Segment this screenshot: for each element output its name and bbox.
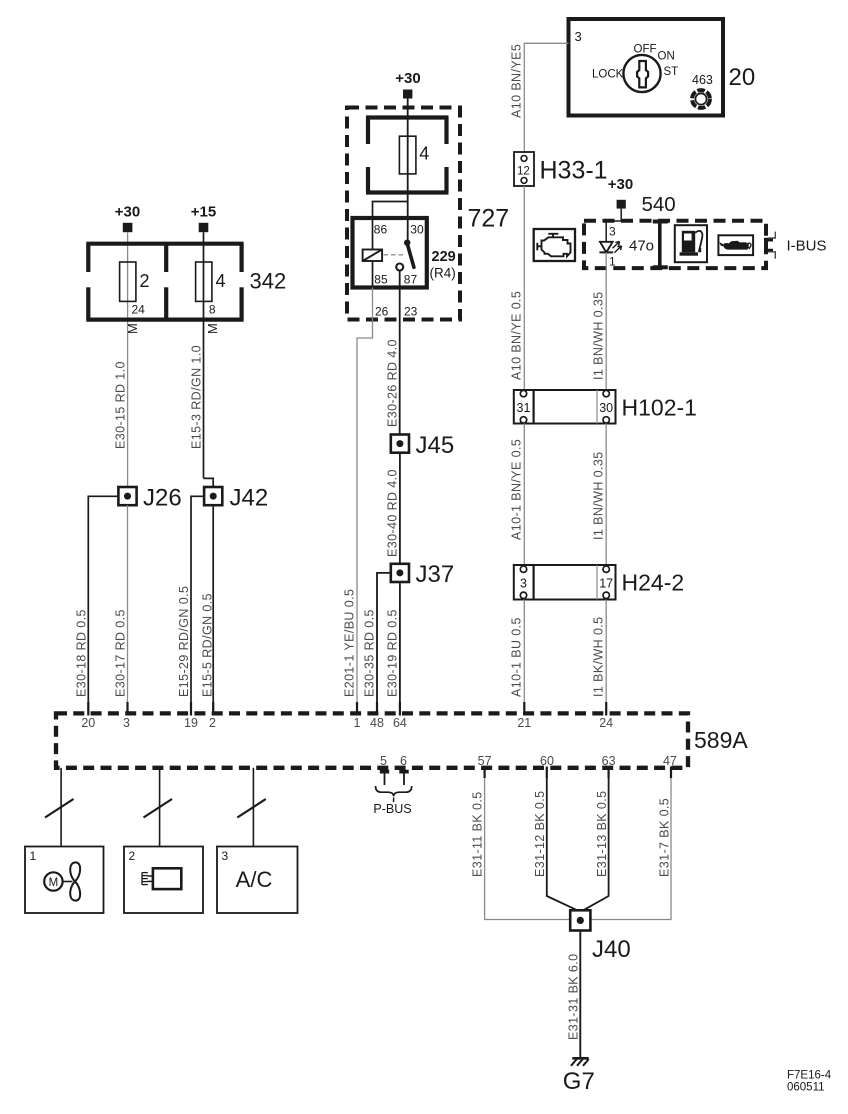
svg-text:H24-2: H24-2 (622, 570, 685, 596)
svg-text:47: 47 (663, 754, 677, 768)
wire to component 3 (252, 768, 254, 847)
svg-text:6: 6 (400, 754, 407, 768)
+30 terminal square (617, 200, 626, 209)
key switch positions labels (592, 44, 678, 81)
svg-text:30: 30 (599, 401, 613, 415)
svg-text:64: 64 (393, 716, 407, 730)
svg-text:86: 86 (374, 223, 388, 237)
svg-text:+30: +30 (115, 204, 140, 221)
branch wire to relay pin 86 (373, 202, 408, 221)
fuse box 342 (86, 244, 243, 320)
svg-text:H33-1: H33-1 (540, 157, 608, 185)
relay contact 30 dot (404, 240, 410, 246)
svg-text:727: 727 (468, 205, 510, 233)
svg-text:E201-1 YE/BU 0.5: E201-1 YE/BU 0.5 (343, 589, 357, 697)
svg-text:2: 2 (140, 271, 150, 291)
svg-text:4: 4 (216, 271, 226, 291)
svg-text:J45: J45 (416, 432, 455, 459)
relay contact 87 circle (396, 264, 403, 271)
svg-text:G7: G7 (563, 1068, 595, 1095)
wire J40 to ground (579, 931, 581, 1059)
svg-text:+15: +15 (191, 204, 216, 221)
svg-text:I1 BN/WH 0.35: I1 BN/WH 0.35 (592, 291, 606, 380)
wire jog into J42 (204, 478, 214, 487)
svg-text:E15-29 RD/GN 0.5: E15-29 RD/GN 0.5 (177, 586, 191, 697)
relay switch blade (407, 244, 414, 268)
wire H33-1 to H102-1 (523, 186, 525, 390)
svg-text:H102-1: H102-1 (622, 395, 697, 421)
svg-text:24: 24 (131, 303, 145, 317)
svg-text:M: M (125, 323, 140, 334)
svg-text:(R4): (R4) (430, 266, 456, 281)
svg-text:E31-31 BK 6.0: E31-31 BK 6.0 (566, 953, 580, 1040)
svg-text:+30: +30 (395, 70, 420, 87)
I-BUS connector notch (766, 238, 773, 253)
wire pin 47 to J40 (590, 778, 671, 920)
svg-text:LOCK: LOCK (592, 69, 624, 81)
svg-text:A10 BN/YE 0.5: A10 BN/YE 0.5 (510, 291, 524, 380)
wire pin 57 to J40 (485, 778, 571, 920)
svg-text:20: 20 (729, 64, 756, 91)
wires H102-1 to H24-2 (523, 424, 525, 566)
svg-text:E31-12 BK 0.5: E31-12 BK 0.5 (533, 790, 547, 877)
svg-text:47o: 47o (629, 238, 654, 255)
svg-text:OFF: OFF (634, 44, 657, 56)
dashed box 540 (584, 221, 766, 268)
wire from ignition pin 3 to H33-1 (524, 43, 568, 152)
svg-text:I1 BK/WH 0.5: I1 BK/WH 0.5 (592, 616, 606, 697)
relay 229 box (353, 218, 427, 288)
svg-text:2: 2 (129, 849, 136, 863)
wire J26 branch to pin 20 (88, 496, 118, 713)
svg-text:A10-1 BU 0.5: A10-1 BU 0.5 (510, 617, 524, 697)
svg-text:ON: ON (658, 51, 675, 63)
engine icon (537, 234, 570, 256)
key cylinder circle (623, 55, 660, 92)
svg-text:E15-5 RD/GN 0.5: E15-5 RD/GN 0.5 (200, 593, 214, 697)
wire pin 60 to J40 (547, 778, 578, 910)
svg-text:M: M (205, 323, 220, 334)
junction J37 (391, 564, 409, 582)
svg-text:87: 87 (404, 273, 418, 287)
component box 2 (solenoid) (124, 847, 203, 914)
relay coil wire 86-85 (372, 218, 374, 288)
svg-text:463: 463 (692, 73, 713, 87)
ground G7 (571, 1058, 589, 1066)
svg-text:E31-13 BK 0.5: E31-13 BK 0.5 (595, 790, 609, 877)
svg-text:589A: 589A (694, 727, 748, 753)
wire +30 through fuse to relay pin 30 (407, 99, 409, 243)
svg-text:17: 17 (599, 577, 613, 591)
junction J40 (570, 910, 590, 930)
svg-text:26: 26 (375, 305, 389, 319)
fuse 4 symbol (196, 262, 212, 301)
svg-text:F7E16-4: F7E16-4 (787, 1070, 832, 1082)
svg-text:5: 5 (380, 754, 387, 768)
fuel pump icon (680, 231, 703, 256)
I-BUS plug symbol (768, 232, 775, 259)
connector leads (148, 875, 153, 877)
svg-text:J40: J40 (592, 936, 631, 963)
svg-text:J37: J37 (416, 561, 455, 588)
svg-text:M: M (49, 877, 59, 889)
wire J26 to pin 3 (127, 505, 129, 713)
wire +30 to fuse 2 (127, 232, 129, 487)
fuse 4 symbol (727) (399, 136, 416, 174)
wire LED down to H102-1 pin 30 (605, 252, 607, 390)
svg-text:30: 30 (410, 223, 424, 237)
wire to component 2 (159, 768, 161, 847)
lock cylinder 463 symbol (695, 93, 706, 104)
continuation slash (144, 799, 173, 818)
relay actuation dashed link (384, 254, 405, 256)
svg-text:A10 BN/YE5: A10 BN/YE5 (510, 44, 524, 118)
svg-text:3: 3 (520, 577, 527, 591)
component box 3 (A/C) (217, 847, 298, 914)
fan blades (70, 862, 80, 900)
continuation slash (237, 799, 265, 818)
LED arrows (613, 242, 620, 249)
oil can icon (719, 241, 751, 250)
P-BUS tick (393, 798, 395, 803)
svg-text:E15-3 RD/GN 1.0: E15-3 RD/GN 1.0 (189, 345, 203, 449)
svg-text:24: 24 (599, 716, 613, 730)
svg-text:3: 3 (609, 225, 616, 239)
svg-text:8: 8 (209, 303, 216, 317)
svg-text:E30-35 RD 0.5: E30-35 RD 0.5 (363, 609, 377, 697)
oil pressure symbol box (718, 235, 753, 255)
wires H24-2 to 589A (523, 600, 525, 714)
wire J42 branch to pin 19 (191, 496, 204, 713)
svg-text:2: 2 (209, 716, 216, 730)
internal divider (653, 222, 668, 268)
component box 1 (fan motor) (25, 847, 104, 914)
continuation slash (45, 799, 74, 818)
svg-text:E31-11 BK 0.5: E31-11 BK 0.5 (471, 791, 485, 877)
svg-text:E30-17 RD 0.5: E30-17 RD 0.5 (113, 609, 127, 697)
svg-text:60: 60 (540, 754, 554, 768)
svg-text:1: 1 (609, 255, 616, 269)
engine symbol box (534, 229, 575, 261)
svg-text:J26: J26 (143, 484, 182, 511)
svg-text:E30-26 RD 4.0: E30-26 RD 4.0 (386, 339, 400, 427)
svg-text:342: 342 (250, 269, 287, 294)
connector H33-1 (514, 152, 534, 186)
connector comb (142, 872, 148, 884)
wire J42 to pin 2 (212, 505, 214, 713)
svg-text:A/C: A/C (236, 867, 273, 892)
motor M circle (44, 872, 62, 890)
svg-text:060511: 060511 (787, 1082, 825, 1094)
+30 terminal square (403, 90, 412, 99)
wire to component 1 (60, 768, 62, 847)
+30 terminal square (123, 223, 133, 232)
svg-text:20: 20 (81, 716, 95, 730)
motor shaft (63, 881, 73, 883)
svg-text:A10-1 BN/YE 0.5: A10-1 BN/YE 0.5 (510, 439, 524, 540)
svg-text:21: 21 (517, 716, 531, 730)
P-BUS pin 6 stub (403, 772, 405, 786)
wire J37 to pin 64 (399, 582, 401, 714)
solenoid body (153, 868, 181, 889)
svg-text:E30-18 RD 0.5: E30-18 RD 0.5 (74, 609, 88, 697)
+15 terminal square (199, 223, 209, 232)
fuse holder box inside 727 (366, 118, 449, 193)
wire J37 branch to pin 48 (377, 573, 391, 714)
P-BUS brace (376, 786, 412, 796)
wire pin 85 to E201-1 (357, 288, 373, 714)
svg-text:1: 1 (30, 849, 37, 863)
svg-text:ST: ST (664, 66, 679, 78)
svg-text:85: 85 (374, 273, 388, 287)
svg-text:19: 19 (184, 716, 198, 730)
svg-text:4: 4 (419, 144, 429, 164)
svg-text:3: 3 (123, 716, 130, 730)
svg-text:48: 48 (370, 716, 384, 730)
svg-text:23: 23 (404, 305, 418, 319)
ignition switch 20 box (569, 19, 724, 116)
svg-text:J42: J42 (230, 484, 269, 511)
wire +15 through fuse 4 down (203, 232, 205, 478)
connector H102-1 (514, 390, 616, 424)
svg-text:63: 63 (602, 754, 616, 768)
svg-text:E30-40 RD 4.0: E30-40 RD 4.0 (386, 469, 400, 557)
svg-text:I1 BN/WH 0.35: I1 BN/WH 0.35 (592, 451, 606, 540)
svg-text:+30: +30 (608, 176, 633, 193)
fuel pump symbol box (675, 225, 707, 262)
svg-text:31: 31 (517, 401, 531, 415)
wire 87 down (399, 271, 401, 435)
svg-text:229: 229 (432, 249, 456, 265)
dashed box 727 (347, 108, 460, 320)
svg-text:E31-7 BK 0.5: E31-7 BK 0.5 (657, 798, 671, 877)
fuse 2 symbol (120, 262, 136, 301)
wire +30 into 540 (606, 209, 621, 242)
top pin ticks (88, 702, 606, 716)
LED 47o symbol (600, 242, 613, 253)
relay coil (363, 250, 383, 262)
svg-text:E30-15 RD 1.0: E30-15 RD 1.0 (113, 361, 127, 449)
svg-text:3: 3 (222, 849, 229, 863)
svg-text:540: 540 (642, 193, 676, 216)
svg-text:3: 3 (575, 29, 582, 44)
svg-text:12: 12 (517, 166, 530, 178)
svg-text:E30-19 RD 0.5: E30-19 RD 0.5 (386, 609, 400, 697)
connector H24-2 (514, 565, 616, 600)
P-BUS pin 5 stub (384, 772, 386, 786)
svg-text:57: 57 (478, 754, 492, 768)
wire J45 to J37 (399, 453, 401, 564)
junction J42 (204, 487, 222, 505)
wire pin 63 to J40 (583, 778, 608, 910)
junction J45 (391, 435, 409, 453)
bottom pin ticks (485, 767, 671, 779)
svg-text:1: 1 (354, 716, 361, 730)
svg-text:I-BUS: I-BUS (787, 238, 827, 255)
junction J26 (118, 487, 136, 505)
key symbol (637, 61, 648, 87)
control module 589A dashed box (56, 713, 688, 767)
svg-text:P-BUS: P-BUS (373, 802, 411, 816)
